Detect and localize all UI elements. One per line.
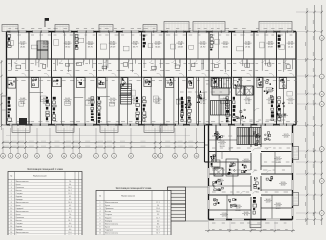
svg-text:33.77: 33.77 [133, 46, 139, 48]
svg-text:11.7: 11.7 [156, 217, 159, 219]
svg-text:9: 9 [11, 205, 12, 207]
svg-text:Коридор: Коридор [105, 220, 112, 222]
svg-text:18: 18 [10, 232, 12, 234]
svg-text:4: 4 [11, 190, 12, 192]
svg-text:Лоджия: Лоджия [16, 196, 22, 198]
svg-text:6: 6 [11, 196, 12, 198]
svg-text:17: 17 [130, 156, 132, 158]
svg-text:11: 11 [10, 211, 12, 213]
svg-text:5.5: 5.5 [69, 199, 71, 201]
svg-text:№: № [10, 175, 12, 178]
svg-text:16.7: 16.7 [68, 190, 71, 192]
svg-text:Санузел: Санузел [105, 214, 112, 216]
svg-text:6.0: 6.0 [69, 223, 71, 225]
svg-text:14.0: 14.0 [68, 187, 71, 189]
svg-text:4.2: 4.2 [69, 205, 71, 207]
svg-text:16.17: 16.17 [267, 91, 273, 93]
svg-text:12.01: 12.01 [283, 136, 289, 138]
svg-text:14.5: 14.5 [156, 230, 159, 232]
svg-text:7: 7 [100, 220, 101, 222]
svg-text:2.4: 2.4 [157, 205, 159, 207]
svg-text:3: 3 [321, 181, 322, 183]
svg-text:20.57: 20.57 [110, 103, 116, 105]
svg-text:Жилая комната: Жилая комната [105, 223, 118, 225]
svg-text:13: 13 [78, 156, 80, 158]
svg-text:26.66: 26.66 [223, 46, 229, 48]
svg-text:2: 2 [321, 213, 322, 215]
svg-text:3: 3 [10, 156, 11, 158]
bottom dimension line of right wing [205, 230, 295, 232]
svg-text:24.68: 24.68 [178, 46, 184, 48]
svg-text:Санузел: Санузел [16, 193, 23, 195]
right side vertical dimension lines [306, 8, 308, 225]
svg-text:39.52: 39.52 [65, 46, 71, 48]
svg-text:Кухня: Кухня [105, 227, 110, 229]
svg-text:5: 5 [104, 156, 105, 158]
svg-text:29.29: 29.29 [110, 46, 116, 48]
svg-text:23.29: 23.29 [288, 103, 294, 105]
svg-text:4: 4 [25, 156, 26, 158]
svg-text:30.01: 30.01 [133, 103, 139, 105]
svg-text:№: № [99, 195, 101, 198]
svg-text:21.01: 21.01 [217, 184, 223, 186]
svg-text:6: 6 [100, 217, 101, 219]
svg-text:23.09: 23.09 [155, 103, 161, 105]
svg-text:7: 7 [11, 199, 12, 201]
svg-text:Жилая комната: Жилая комната [16, 211, 29, 213]
svg-text:Лоджия: Лоджия [16, 226, 22, 228]
svg-text:16.0: 16.0 [156, 211, 159, 213]
svg-text:Жилая комната: Жилая комната [105, 202, 118, 204]
svg-text:3: 3 [100, 208, 101, 210]
svg-text:13: 13 [2, 156, 4, 158]
svg-text:Коридор: Коридор [16, 199, 23, 201]
svg-text:Ванная: Ванная [105, 211, 111, 213]
svg-text:5: 5 [72, 156, 73, 158]
svg-text:Экспликация помещений 1 этажа: Экспликация помещений 1 этажа [27, 168, 63, 171]
svg-text:16.82: 16.82 [280, 184, 286, 186]
svg-text:13: 13 [10, 217, 12, 219]
svg-text:8: 8 [100, 223, 101, 225]
svg-text:14: 14 [10, 220, 12, 222]
svg-text:9: 9 [100, 227, 101, 229]
svg-text:20.50: 20.50 [65, 103, 71, 105]
svg-text:16.19: 16.19 [243, 161, 249, 163]
svg-text:36.34: 36.34 [245, 103, 251, 105]
svg-text:Наименование: Наименование [121, 196, 136, 198]
svg-text:13.7: 13.7 [68, 211, 71, 213]
svg-text:5.0: 5.0 [157, 220, 159, 222]
svg-text:14.7: 14.7 [68, 220, 71, 222]
svg-text:14.92: 14.92 [221, 215, 227, 217]
svg-text:Ванная: Ванная [16, 190, 22, 192]
svg-text:12: 12 [49, 156, 51, 158]
svg-text:9.1: 9.1 [69, 196, 71, 198]
bottom dimension lines and axis circles [2, 142, 204, 144]
svg-text:1: 1 [160, 156, 161, 158]
svg-text:7.6: 7.6 [69, 214, 71, 216]
svg-text:1: 1 [11, 181, 12, 183]
svg-text:2: 2 [100, 205, 101, 207]
svg-text:4: 4 [321, 149, 322, 151]
svg-text:Ванная: Ванная [16, 220, 22, 222]
pavement line under top wing [6, 135, 190, 137]
svg-text:15: 15 [195, 156, 197, 158]
svg-text:11: 11 [36, 156, 38, 158]
svg-text:10: 10 [10, 208, 12, 210]
svg-text:Кухня: Кухня [16, 214, 21, 216]
svg-text:Жилая комната: Жилая комната [16, 232, 29, 234]
exit porch at bottom of right wing [250, 220, 261, 228]
svg-text:4: 4 [17, 156, 18, 158]
svg-text:12.99: 12.99 [213, 169, 219, 171]
svg-text:4: 4 [100, 211, 101, 213]
svg-text:Гардероб: Гардероб [16, 208, 24, 210]
svg-text:Наименование: Наименование [33, 176, 48, 178]
stair cores in top wing [37, 41, 48, 59]
svg-text:Лоджия: Лоджия [105, 217, 111, 219]
svg-text:6: 6 [185, 156, 186, 158]
svg-text:34.45: 34.45 [155, 46, 161, 48]
svg-text:37.89: 37.89 [268, 46, 274, 48]
svg-text:1: 1 [100, 202, 101, 204]
svg-text:12.3: 12.3 [68, 226, 71, 228]
svg-text:5: 5 [11, 193, 12, 195]
svg-text:8.3: 8.3 [157, 223, 159, 225]
svg-text:Кухня: Кухня [105, 205, 110, 207]
svg-text:6.0: 6.0 [69, 229, 71, 231]
svg-text:5: 5 [100, 214, 101, 216]
svg-text:11.6: 11.6 [68, 232, 71, 234]
svg-text:Жилая комната: Жилая комната [105, 233, 118, 235]
svg-text:14.59: 14.59 [265, 201, 271, 203]
svg-text:11.9: 11.9 [68, 193, 71, 195]
svg-text:Прихожая: Прихожая [16, 187, 24, 189]
building outline: top wing [7, 31, 297, 33]
svg-text:8: 8 [11, 202, 12, 204]
svg-text:38.86: 38.86 [20, 103, 26, 105]
svg-text:12.3: 12.3 [156, 227, 159, 229]
svg-text:30.29: 30.29 [275, 208, 281, 210]
svg-text:16: 16 [10, 226, 12, 228]
svg-text:2: 2 [11, 184, 12, 186]
svg-text:8.9: 8.9 [69, 217, 71, 219]
svg-text:39.33: 39.33 [219, 146, 225, 148]
svg-text:16.3: 16.3 [68, 202, 71, 204]
svg-text:Кухня: Кухня [16, 184, 21, 186]
svg-text:15: 15 [10, 223, 12, 225]
svg-text:5: 5 [95, 156, 96, 158]
svg-text:14.7: 14.7 [156, 233, 159, 235]
apartment bays of top wing [10, 30, 19, 32]
svg-text:Жилая комната: Жилая комната [16, 181, 29, 183]
svg-text:5.3: 5.3 [157, 214, 159, 216]
svg-text:10: 10 [63, 156, 65, 158]
svg-text:4.0: 4.0 [69, 208, 71, 210]
svg-text:Санузел: Санузел [16, 223, 23, 225]
svg-text:21.90: 21.90 [200, 46, 206, 48]
svg-text:27.49: 27.49 [200, 103, 206, 105]
svg-text:11: 11 [99, 233, 101, 235]
svg-text:29.71: 29.71 [43, 103, 49, 105]
svg-text:5.4: 5.4 [69, 184, 71, 186]
svg-text:17: 17 [10, 229, 12, 231]
right wing outline [208, 125, 210, 220]
svg-text:7.6: 7.6 [69, 181, 71, 183]
svg-text:Прихожая: Прихожая [16, 217, 24, 219]
balconies along top facade [2, 25, 18, 32]
svg-text:3: 3 [113, 156, 114, 158]
svg-text:Жилая комната: Жилая комната [16, 202, 29, 204]
svg-text:27.64: 27.64 [245, 46, 251, 48]
svg-text:20.46: 20.46 [235, 210, 241, 212]
svg-text:Коридор: Коридор [16, 229, 23, 231]
svg-text:26.31: 26.31 [20, 46, 26, 48]
svg-text:17.1: 17.1 [156, 202, 159, 204]
svg-text:10: 10 [99, 230, 101, 232]
svg-text:39.76: 39.76 [88, 46, 94, 48]
svg-text:20: 20 [174, 156, 176, 158]
svg-text:15.6: 15.6 [156, 208, 159, 210]
svg-text:19: 19 [154, 156, 156, 158]
svg-text:Экспликация помещений 2 этажа: Экспликация помещений 2 этажа [116, 187, 152, 190]
svg-text:3: 3 [11, 187, 12, 189]
svg-text:Кухня: Кухня [16, 205, 21, 207]
svg-text:Гардероб: Гардероб [105, 230, 113, 232]
svg-text:12: 12 [10, 214, 12, 216]
svg-text:Г: Г [321, 76, 322, 78]
svg-text:Прихожая: Прихожая [105, 208, 113, 210]
